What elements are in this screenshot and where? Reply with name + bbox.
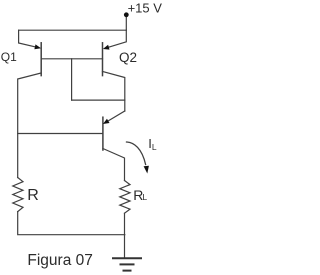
svg-text:Q2: Q2 xyxy=(119,50,137,65)
svg-text:+15 V: +15 V xyxy=(128,1,163,16)
svg-text:Figura 07: Figura 07 xyxy=(27,252,92,269)
svg-text:L: L xyxy=(152,142,157,152)
svg-text:R: R xyxy=(27,187,39,204)
svg-text:L: L xyxy=(142,192,147,202)
svg-text:Q1: Q1 xyxy=(1,50,17,64)
